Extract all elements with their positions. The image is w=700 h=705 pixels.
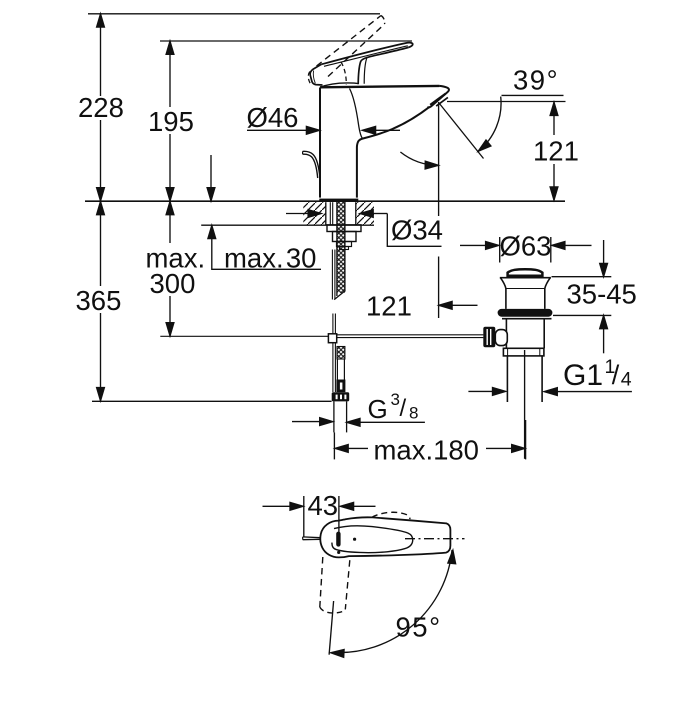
39° arc upper with arrow — [476, 97, 501, 155]
handle lever blade top — [321, 43, 413, 65]
top view center mark — [336, 532, 340, 547]
drain below-seal line — [502, 318, 552, 320]
drain center line — [524, 350, 526, 459]
pull rod lower — [333, 314, 336, 393]
svg-text:300: 300 — [150, 268, 196, 299]
svg-text:max. 30: max. 30 — [224, 243, 316, 274]
top view dashed hidden edge — [372, 512, 410, 519]
top view dot 1 — [353, 538, 356, 541]
svg-text:G1: G1 — [563, 359, 603, 392]
dimension 43 — [263, 490, 376, 537]
spout tip face — [427, 86, 449, 108]
G 3/8 nut — [332, 392, 350, 401]
drain lower flange — [503, 348, 544, 356]
handle front face inner line — [364, 58, 367, 84]
dimension max.30 — [208, 225, 321, 273]
dimension 365 — [76, 201, 122, 400]
raised handle dashed lower — [328, 24, 385, 77]
supply pipe — [334, 401, 347, 432]
rotated handle dashed left edge — [320, 557, 323, 607]
svg-text:95°: 95° — [396, 612, 442, 643]
pull rod through counter left line — [329, 202, 331, 225]
handle blade inner line — [324, 46, 408, 67]
top view inner lever contour — [332, 526, 413, 553]
faucet body right edge and spout underside — [357, 107, 430, 198]
dimension max.180 — [334, 420, 525, 466]
mounting washer — [327, 225, 361, 232]
extension line top 228 — [88, 13, 380, 15]
95° leg line — [329, 601, 334, 655]
svg-text:Ø63: Ø63 — [500, 231, 552, 262]
svg-text:121: 121 — [366, 291, 412, 322]
rotated handle dashed tip — [320, 607, 346, 613]
handle pivot cap — [310, 64, 322, 85]
pop-up horizontal rod extension line — [160, 335, 328, 337]
svg-text:/: / — [400, 395, 407, 422]
pivot dashed arc — [308, 72, 310, 84]
svg-text:121: 121 — [533, 136, 579, 167]
dimension max.300 — [146, 201, 206, 336]
dimension Ø34 arrows — [286, 210, 387, 218]
hose end fitting — [336, 380, 345, 393]
pop-up pull knob on body — [303, 151, 320, 178]
drain flange — [500, 278, 551, 289]
svg-text:43: 43 — [308, 490, 339, 521]
svg-text:365: 365 — [76, 285, 122, 316]
drain upper body — [506, 289, 545, 309]
label G1 1/4 — [563, 356, 632, 392]
braided hose lower — [337, 347, 345, 380]
top view dot 2 — [337, 551, 340, 554]
pop-up horizontal rod — [337, 335, 484, 338]
counter hatch right — [356, 202, 374, 225]
svg-text:Ø34: Ø34 — [391, 215, 443, 246]
drain tailpipe — [507, 356, 542, 402]
mounting nut — [333, 232, 357, 242]
spout inner fillet — [350, 89, 363, 139]
svg-text:Ø46: Ø46 — [247, 102, 299, 133]
Ø34 leader bracket — [387, 214, 441, 247]
faucet base plate — [319, 199, 358, 202]
dimension 35-45 — [552, 240, 637, 353]
top view pull rod — [303, 537, 321, 540]
water stream vertical reference lower part — [438, 257, 440, 319]
svg-text:4: 4 — [621, 369, 632, 391]
water stream 39° line — [439, 103, 484, 159]
countertop top line — [85, 200, 565, 202]
label G 3/8 — [368, 390, 419, 424]
svg-text:228: 228 — [78, 92, 124, 123]
dimension Ø63 — [460, 231, 592, 263]
rotated handle dashed right edge — [345, 560, 350, 609]
svg-text:35-45: 35-45 — [567, 279, 637, 310]
drain lower body — [506, 319, 544, 349]
counter hatch left — [303, 202, 326, 225]
dimension 121 right — [533, 102, 579, 200]
95° arc — [330, 550, 456, 657]
top view outer outline — [320, 517, 450, 557]
mounting collet — [337, 242, 352, 247]
spout tip extension line — [447, 101, 566, 103]
G1 1/4 leader — [468, 388, 632, 396]
faucet body left edge — [319, 88, 321, 198]
handle blade underside and front face — [358, 48, 408, 85]
dimension arrow Ø46 left — [247, 126, 320, 134]
handle motion dashed arc — [341, 62, 346, 85]
drain knob collar — [495, 330, 507, 346]
rod junction block — [328, 334, 336, 343]
body dome top — [320, 83, 358, 87]
svg-text:8: 8 — [409, 404, 418, 423]
extension line 365 bottom — [92, 400, 332, 402]
dimension 228 — [78, 14, 124, 201]
extension line top 195 — [160, 40, 412, 42]
G 3/8 leader — [292, 418, 425, 426]
svg-text:/: / — [612, 360, 620, 390]
aerator slats — [430, 94, 448, 107]
svg-text:G: G — [368, 394, 388, 424]
water stream vertical reference — [438, 102, 440, 216]
drain knob — [483, 327, 495, 348]
braided hose upper — [334, 202, 345, 300]
39° arc lower with arrow — [400, 152, 438, 169]
raised handle dashed upper — [317, 16, 382, 67]
dimension 195 — [148, 41, 194, 201]
raised handle dashed tip — [381, 16, 385, 25]
39° underline — [502, 94, 564, 96]
faucet top line — [320, 86, 439, 87]
pull rod upper — [332, 250, 335, 300]
countertop reference arrow — [207, 155, 215, 201]
dimension arrow Ø46 right — [362, 126, 400, 134]
svg-text:39°: 39° — [513, 65, 559, 96]
svg-text:max.180: max.180 — [374, 435, 479, 466]
top view centerline — [405, 538, 465, 540]
svg-text:195: 195 — [148, 106, 194, 137]
drain cap — [508, 269, 543, 277]
mounting collet tip — [340, 247, 349, 250]
countertop bottom line — [201, 224, 374, 226]
pull rod through counter right line — [332, 202, 334, 225]
dimension 121 middle — [366, 291, 478, 322]
drain rubber seal — [498, 309, 553, 317]
handle pivot facet — [313, 71, 315, 84]
